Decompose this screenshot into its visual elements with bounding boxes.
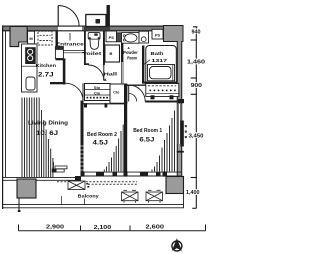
svg-text:1317: 1317 — [152, 58, 168, 63]
window sill mark on right wall — [177, 151, 184, 153]
hall closet Sto/Clo — [85, 84, 111, 101]
balcony left pillar — [17, 179, 36, 198]
closet right of hall — [110, 84, 127, 103]
svg-text:2,100: 2,100 — [94, 225, 112, 231]
balcony drain pipe — [18, 198, 20, 212]
entrance door stop mark — [69, 33, 71, 41]
svg-text:1,460: 1,460 — [187, 60, 205, 66]
bath leader line — [143, 60, 151, 66]
svg-text:Powder: Powder — [123, 50, 138, 55]
LD bottom wall — [3, 176, 82, 182]
entrance door swing arc — [58, 6, 79, 27]
svg-text:6.5J: 6.5J — [139, 137, 154, 143]
water heater dark box — [117, 33, 122, 42]
PS box 1 — [106, 31, 117, 42]
BR1 curtain comb — [152, 111, 175, 172]
LD entry door arc — [66, 83, 84, 101]
entrance/kitchen upper wall — [56, 31, 58, 48]
bedroom bottom wall / windows — [81, 172, 183, 177]
LD curtain comb — [22, 98, 53, 178]
balcony right pillar — [166, 177, 184, 194]
counter mid line — [22, 65, 38, 67]
stove (black with white burners) — [25, 47, 36, 64]
bathtub — [148, 65, 175, 81]
AC unit LD — [68, 181, 85, 190]
svg-text:Sto: Sto — [94, 85, 101, 90]
bath room rounded outline — [146, 46, 177, 88]
kitchen sink — [26, 77, 35, 90]
powder room caret mark — [127, 47, 129, 49]
porch box with dark unit — [86, 15, 106, 27]
LD/BR2 sliding partition ticks — [81, 146, 84, 170]
svg-text:Bed Room 2: Bed Room 2 — [87, 132, 117, 138]
right dimension label backgrounds — [186, 28, 206, 194]
AC unit LD drain marks — [86, 183, 88, 185]
shoe cabinet — [55, 47, 63, 59]
small closet beside toilet — [105, 45, 120, 62]
svg-text:PS: PS — [155, 33, 161, 38]
LD sliding door handle block — [52, 169, 56, 173]
BR1 top wall — [145, 101, 178, 103]
svg-text:2,600: 2,600 — [146, 225, 165, 231]
LD sliding door jamb line — [53, 162, 55, 169]
powder room left wall — [121, 43, 123, 62]
LD entry door leaf — [82, 83, 84, 101]
svg-text:4.5J: 4.5J — [93, 140, 109, 146]
toilet door arc — [88, 65, 104, 81]
right outer wall — [177, 41, 182, 177]
balcony sill dashes — [57, 182, 137, 185]
dashed utility box — [38, 31, 52, 45]
svg-text:1,400: 1,400 — [186, 190, 200, 196]
BR2/BR1 wall — [124, 84, 127, 177]
AC unit BR2 — [122, 190, 139, 202]
right wall outer window bar — [181, 121, 184, 147]
right dimension labels — [186, 29, 205, 196]
entrance door leaf — [57, 6, 59, 27]
BR1 entry door leaf — [128, 85, 130, 102]
kitchen/LD wall stub — [50, 82, 65, 84]
svg-text:Kitchen: Kitchen — [36, 63, 57, 68]
bath/powder divider — [142, 46, 144, 84]
svg-text:Room: Room — [127, 56, 137, 61]
top-left pillar — [10, 27, 27, 47]
top outer wall band — [2, 26, 183, 32]
PS box 2 — [152, 29, 163, 39]
svg-text:2.7J: 2.7J — [38, 72, 54, 79]
wall stub above top wall — [107, 5, 110, 27]
balcony outer edge — [3, 194, 185, 208]
svg-text:B: B — [110, 51, 113, 56]
compass — [172, 238, 182, 251]
bottom dimension labels — [46, 225, 164, 231]
toilet room walls — [84, 31, 105, 66]
hall caret mark — [104, 78, 107, 80]
laundry pan — [139, 31, 149, 43]
svg-text:Entrance: Entrance — [56, 41, 85, 46]
kitchen counter — [22, 44, 38, 92]
tiny marks beside window bar — [185, 125, 187, 138]
svg-text:2,900: 2,900 — [46, 225, 64, 231]
washbasin counter — [122, 33, 140, 44]
right wall window top jamb block — [178, 99, 184, 103]
bath bottom wall — [142, 82, 177, 84]
toilet door leaf — [103, 65, 105, 81]
AC unit BR1 — [146, 190, 163, 202]
powder/BR1 wall — [124, 84, 146, 86]
left outer wall (double line) — [2, 26, 6, 210]
right dimension line — [191, 27, 198, 209]
svg-text:Toilet: Toilet — [82, 51, 102, 56]
svg-text:Balcony: Balcony — [78, 193, 100, 198]
toilet tank — [88, 32, 100, 39]
BR1 door arc outer — [129, 85, 146, 102]
powder room door (sliding) — [121, 62, 123, 84]
svg-text:PS: PS — [109, 35, 115, 40]
LD/BR2 wall — [81, 101, 84, 177]
BR1 closet — [146, 84, 179, 100]
balcony tick below label — [84, 199, 86, 205]
svg-text:Clo: Clo — [113, 90, 120, 95]
svg-text:Bath: Bath — [151, 51, 164, 56]
LD sliding door — [52, 166, 67, 172]
svg-text:Clo: Clo — [94, 91, 101, 96]
kitchen/hall wall — [63, 59, 66, 85]
svg-text:940: 940 — [192, 29, 201, 35]
meter box M — [28, 31, 35, 44]
BR2 top wall with door nubs — [84, 103, 125, 107]
svg-text:3,450: 3,450 — [189, 133, 204, 139]
svg-text:Hall: Hall — [104, 71, 118, 76]
svg-text:900: 900 — [191, 83, 202, 89]
svg-text:Bed Room 1: Bed Room 1 — [133, 128, 162, 134]
bottom dimension line — [19, 225, 206, 231]
right wall window for BR1 — [178, 104, 181, 144]
balcony divider line — [61, 196, 63, 205]
toilet bowl — [90, 40, 99, 50]
entrance step double line — [63, 51, 84, 53]
top-right corner gray mass — [164, 26, 184, 42]
BR2 curtain comb — [104, 125, 123, 172]
BR1 door arc inner — [129, 94, 137, 102]
